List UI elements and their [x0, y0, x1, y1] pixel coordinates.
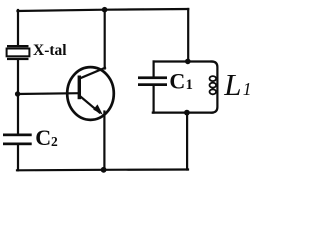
- svg-text:C: C: [35, 125, 51, 150]
- svg-text:C: C: [169, 68, 185, 93]
- svg-text:2: 2: [51, 134, 58, 149]
- svg-text:1: 1: [186, 77, 193, 93]
- svg-text:1: 1: [243, 79, 252, 99]
- svg-text:X-tal: X-tal: [33, 42, 67, 59]
- svg-text:L: L: [223, 67, 241, 102]
